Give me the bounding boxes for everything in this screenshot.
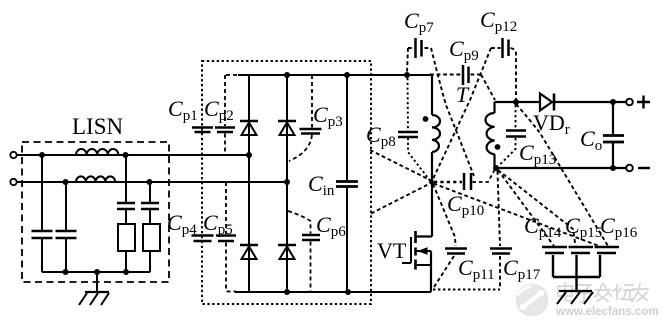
svg-text:VDr: VDr bbox=[533, 110, 570, 138]
svg-text:LISN: LISN bbox=[72, 114, 124, 139]
svg-text:T: T bbox=[456, 82, 470, 107]
svg-text:VT: VT bbox=[377, 238, 407, 263]
svg-text:www.elecfans.com: www.elecfans.com bbox=[555, 306, 658, 318]
